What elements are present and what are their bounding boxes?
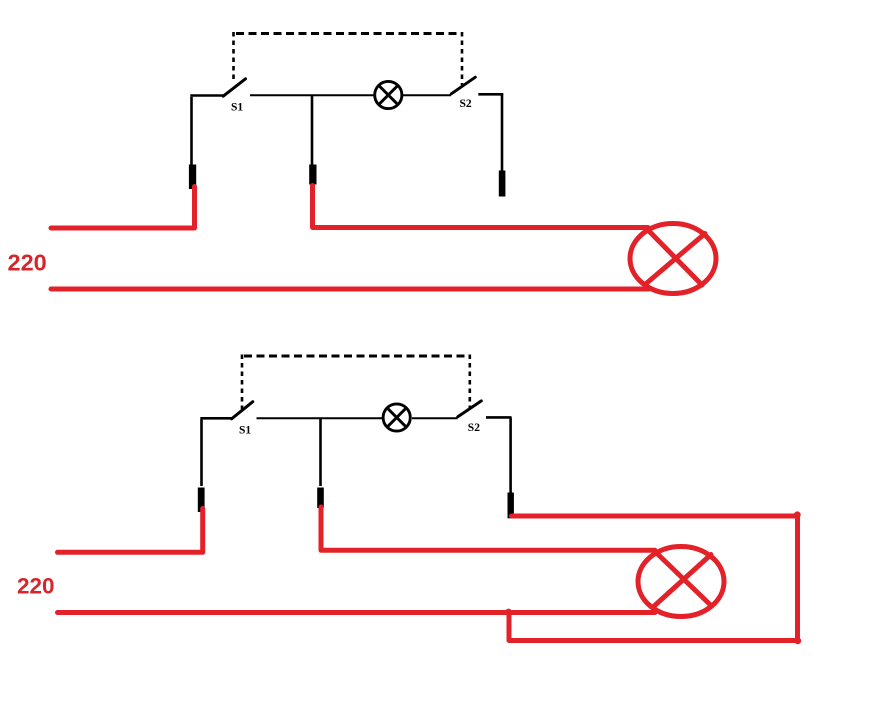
svg-text:220: 220 xyxy=(8,250,47,276)
svg-text:S1: S1 xyxy=(231,102,243,114)
svg-text:S1: S1 xyxy=(239,425,251,437)
svg-text:S2: S2 xyxy=(460,98,472,110)
svg-text:S2: S2 xyxy=(468,422,480,434)
svg-text:220: 220 xyxy=(17,574,55,599)
